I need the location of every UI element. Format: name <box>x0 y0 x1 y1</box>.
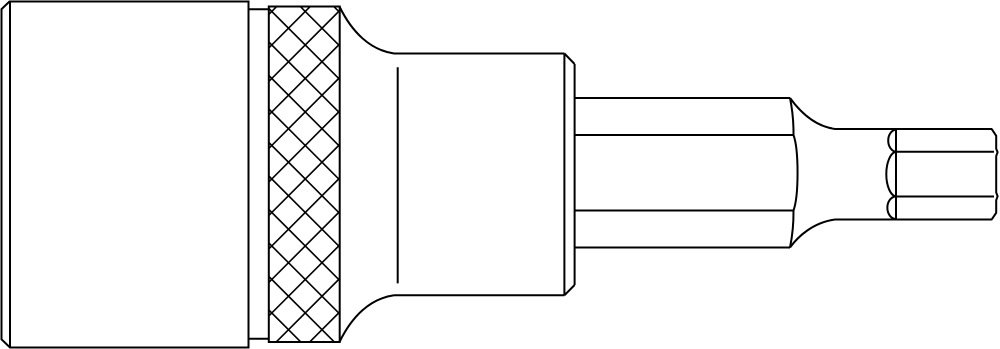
hex shaft top edge <box>575 97 790 99</box>
hex shaft end face upper edge <box>790 98 794 135</box>
knurl crosshatch <box>269 0 340 349</box>
cylinder bottom edge <box>394 294 564 296</box>
socket body outline <box>2 2 249 348</box>
hex shaft bottom edge <box>575 247 790 249</box>
bit tip upper corner arc <box>888 130 896 152</box>
collar ring chamfer bottom <box>564 285 574 295</box>
bit tip shoulder line <box>895 129 897 220</box>
bit tip upper hex line <box>896 151 994 153</box>
cylinder right edge <box>563 54 565 296</box>
hex shaft end face middle bulge <box>794 135 798 211</box>
neck top fillet and line <box>790 98 992 129</box>
neck bottom fillet and line <box>790 220 992 248</box>
bottom fillet curve knurl to cylinder <box>340 295 394 341</box>
cylinder top edge <box>394 53 564 55</box>
bit tip lower hex line <box>896 196 994 198</box>
step band top edge <box>249 8 269 10</box>
hex shaft end face lower edge <box>790 211 794 248</box>
top fillet curve knurl to cylinder <box>340 7 394 54</box>
hex shaft lower corner line <box>575 210 794 212</box>
bit tip end chamfer edge <box>992 129 998 219</box>
bit tip middle corner arc <box>886 152 896 197</box>
step band bottom edge <box>249 338 269 340</box>
socket body chamfer edge line <box>9 2 11 348</box>
knurled collar outline <box>269 7 340 343</box>
bit tip lower corner arc <box>887 197 896 220</box>
cylinder fillet tangent line <box>397 67 399 283</box>
collar ring chamfer top <box>564 54 574 65</box>
collar ring edge <box>574 64 576 285</box>
hex shaft upper corner line <box>575 134 794 136</box>
